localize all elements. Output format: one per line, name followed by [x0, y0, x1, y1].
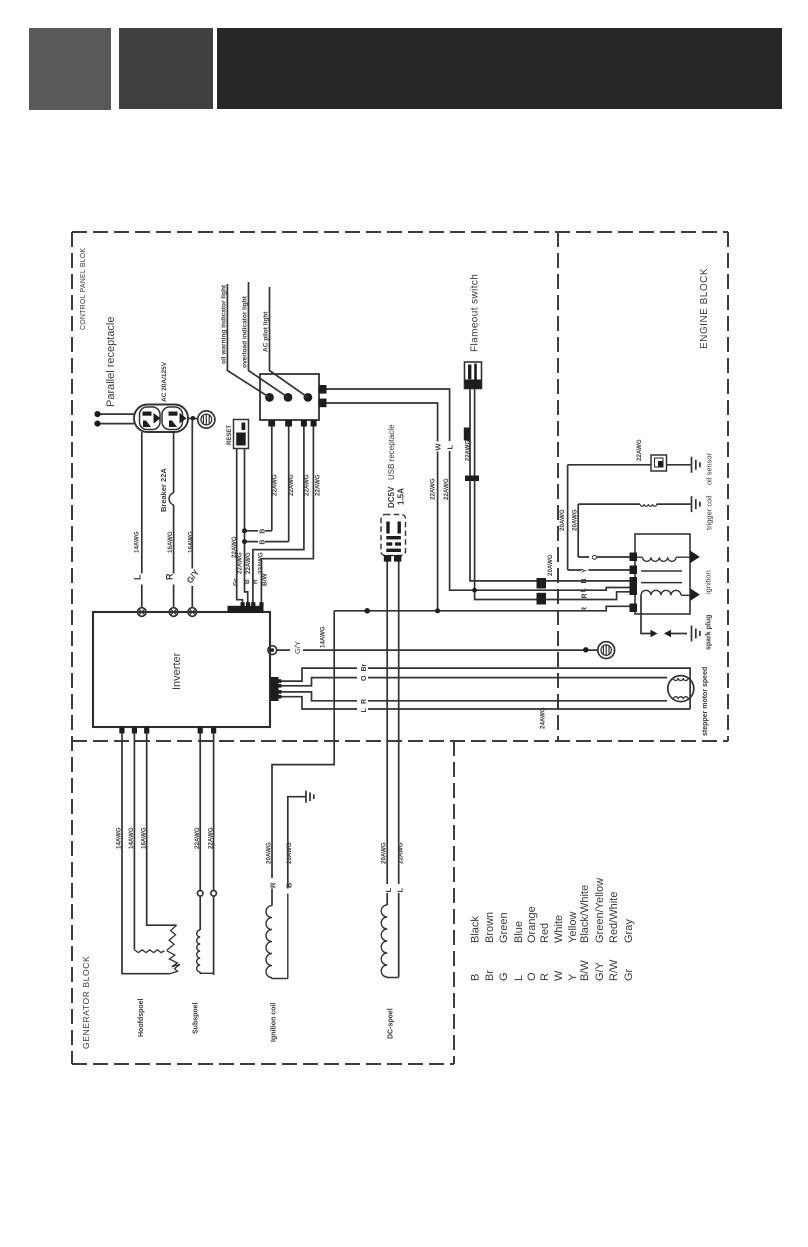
svg-text:Gr: Gr	[233, 578, 240, 586]
svg-text:Blue: Blue	[513, 921, 525, 943]
label 20AWG ign2	[286, 842, 293, 864]
control panel block border	[72, 232, 728, 1064]
ground (spark plug)	[692, 626, 700, 642]
engine connector bar 1	[537, 578, 547, 589]
label 20AWG near connectors	[547, 554, 554, 576]
parallel receptacle pins	[143, 412, 187, 428]
wire AC drop 2 (B)	[245, 427, 289, 542]
svg-text:DC5V: DC5V	[387, 486, 396, 508]
svg-text:14AWG: 14AWG	[116, 827, 123, 849]
legend abbreviations	[470, 959, 636, 981]
svg-text:Black: Black	[470, 916, 482, 943]
svg-text:20AWG: 20AWG	[286, 842, 293, 864]
label 22AWG col3	[258, 552, 265, 574]
wire oil warning indicator light	[227, 284, 269, 397]
AC block right terminal W	[319, 385, 327, 394]
wire spark plug	[641, 595, 687, 633]
engine frame ground circle	[598, 642, 615, 659]
label 20AWG riser Y	[559, 509, 566, 531]
svg-text:ignition: ignition	[704, 570, 713, 594]
label Hoofdspoel	[138, 998, 145, 1037]
ignition secondary coil	[641, 590, 690, 595]
svg-text:GENERATOR BLOCK: GENERATOR BLOCK	[81, 956, 91, 1049]
svg-text:20AWG: 20AWG	[559, 509, 566, 531]
svg-text:L: L	[445, 445, 454, 450]
label R stepper	[361, 699, 368, 704]
label L wire	[580, 587, 587, 592]
svg-text:AC pilot light: AC pilot light	[263, 311, 270, 352]
svg-text:24AWG: 24AWG	[540, 707, 547, 729]
svg-text:B: B	[581, 578, 588, 583]
label W	[434, 443, 443, 451]
node W riser join	[472, 588, 477, 593]
label L	[133, 574, 143, 580]
wire ignition coil B to ground	[288, 797, 306, 889]
svg-text:22AWG: 22AWG	[315, 474, 322, 496]
svg-text:Hoofdspoel: Hoofdspoel	[138, 998, 145, 1037]
svg-text:14AWG: 14AWG	[128, 827, 135, 849]
svg-text:AC 20A/125V: AC 20A/125V	[161, 361, 168, 402]
svg-text:14AWG: 14AWG	[134, 531, 141, 553]
svg-text:22AWG: 22AWG	[398, 842, 405, 864]
wire main coil 1	[122, 733, 170, 974]
header bar 3	[217, 28, 782, 109]
ignition HT arrow top	[690, 551, 700, 564]
inverter G/Y terminal right	[268, 646, 277, 655]
svg-text:22AWG: 22AWG	[443, 478, 450, 500]
wire stepper B (O)	[281, 678, 667, 686]
label 24AWG	[540, 707, 547, 729]
svg-text:22AWG: 22AWG	[288, 474, 295, 496]
svg-text:Red/White: Red/White	[608, 892, 620, 943]
wire USB right down to DC coil	[398, 562, 400, 978]
wire receptacle to ground circle	[188, 418, 198, 420]
oil sensor	[651, 455, 667, 471]
svg-text:14AWG: 14AWG	[320, 626, 327, 648]
legend color names	[470, 878, 636, 943]
svg-text:spark plug: spark plug	[706, 615, 713, 650]
svg-text:1.5A: 1.5A	[397, 488, 406, 505]
inverter U1	[93, 612, 270, 727]
svg-text:O: O	[592, 554, 599, 560]
DC coil winding	[381, 905, 398, 978]
header bar 1	[29, 28, 111, 110]
breaker symbol	[169, 493, 174, 505]
label 22AWG oil sensor	[636, 439, 643, 461]
label B wire	[581, 578, 588, 583]
label R wire b	[581, 607, 588, 612]
label 22AWG sub1	[194, 827, 201, 849]
header bar 2	[119, 28, 213, 109]
svg-text:R: R	[539, 973, 551, 981]
svg-text:stepper motor speed: stepper motor speed	[702, 667, 709, 736]
svg-text:Yellow: Yellow	[567, 912, 579, 943]
ground (ignition B)	[306, 791, 314, 803]
svg-text:22AWG: 22AWG	[272, 474, 279, 496]
label USB receptacle	[387, 424, 396, 480]
ignition module U2	[635, 534, 690, 614]
label DC-spoel	[388, 1008, 395, 1039]
svg-text:L: L	[580, 587, 587, 592]
label oil sensor	[705, 452, 714, 485]
parallel receptacle body	[134, 405, 188, 433]
svg-text:22AWG: 22AWG	[258, 552, 265, 574]
svg-text:B/W: B/W	[579, 960, 591, 981]
wire stepper C (R)	[281, 692, 667, 701]
svg-text:R: R	[252, 579, 259, 584]
svg-text:22AWG: 22AWG	[237, 552, 244, 574]
label ENGINE BLOCK	[699, 268, 710, 349]
svg-text:USB receptacle: USB receptacle	[387, 424, 396, 480]
ground (oil sensor)	[692, 457, 700, 473]
label G/Y bus	[293, 641, 302, 654]
svg-text:W: W	[553, 970, 565, 981]
svg-text:Inverter: Inverter	[171, 652, 183, 690]
wire R down to inverter (with breaker gap)	[173, 432, 175, 608]
label spark plug	[706, 615, 713, 650]
main winding zigzag	[134, 925, 180, 974]
wire main coil 2	[133, 733, 135, 950]
wire sub coil left	[199, 733, 201, 930]
label overload indicator light	[242, 295, 249, 368]
label 20AWG riser O	[572, 509, 579, 531]
svg-text:Green/Yellow: Green/Yellow	[594, 878, 606, 943]
ground circle (panel earth)	[198, 411, 215, 428]
wire riser Y to oil sensor	[568, 465, 630, 570]
svg-text:Gr: Gr	[623, 968, 635, 981]
wire USB left down to DC coil	[386, 562, 388, 906]
label Ignition coil	[271, 1003, 278, 1042]
wire stepper A (Br)	[281, 668, 690, 709]
svg-text:Subspoel: Subspoel	[193, 1002, 200, 1034]
svg-text:ENGINE BLOCK: ENGINE BLOCK	[699, 268, 710, 349]
stepper motor M1	[668, 676, 694, 702]
flameout wire connector	[465, 476, 479, 482]
ignition exciter coil winding	[266, 894, 288, 979]
label Gr	[233, 578, 240, 586]
label RESET	[227, 425, 233, 445]
label CONTROL PANEL BLOK	[80, 248, 87, 330]
node left terminal A	[94, 411, 100, 417]
svg-text:O: O	[526, 972, 538, 981]
svg-text:G/Y: G/Y	[594, 961, 606, 981]
wire flameout 2 (R)	[475, 389, 630, 600]
label Subspoel	[193, 1002, 200, 1034]
svg-text:R: R	[581, 593, 588, 598]
svg-text:Br: Br	[484, 970, 496, 981]
svg-text:L: L	[133, 574, 143, 580]
AC block lamp node 3	[304, 393, 313, 402]
label 22AWG W riser	[430, 478, 437, 500]
inverter top connector strip	[228, 602, 264, 613]
svg-text:W: W	[434, 443, 443, 451]
label L dc2	[395, 888, 404, 893]
ground (trigger coil)	[692, 496, 700, 512]
svg-text:L: L	[395, 888, 404, 893]
engine block border	[557, 232, 559, 741]
ignition module terminals	[630, 553, 638, 613]
ignition core lines	[641, 571, 682, 583]
svg-text:L: L	[361, 708, 368, 713]
USB receptacle outline	[381, 515, 406, 556]
wire AC drop 3	[253, 427, 304, 607]
svg-text:Red: Red	[539, 923, 551, 943]
inverter terminal R	[169, 608, 178, 617]
svg-text:Br: Br	[361, 663, 368, 671]
label R wire4	[252, 579, 259, 584]
wire ignition coil link	[272, 611, 334, 906]
inverter terminal L	[138, 608, 147, 617]
label oil warning indicator light	[221, 284, 228, 364]
label B gap2	[260, 540, 267, 545]
label 22AWG sub2	[208, 827, 215, 849]
svg-text:R/W: R/W	[608, 959, 620, 981]
wire reset 2 down	[245, 449, 248, 607]
svg-text:B: B	[284, 882, 293, 888]
wire AC drop 1 (B)	[245, 427, 272, 531]
wire L down to inverter	[141, 432, 143, 608]
label AC 20A/125V	[161, 361, 168, 402]
wire R2 bus (ignition R)	[334, 606, 629, 611]
svg-text:Parallel receptacle: Parallel receptacle	[105, 317, 117, 408]
label G/Y slanted	[184, 567, 201, 585]
AC block right terminal L	[319, 399, 327, 408]
svg-text:O: O	[361, 675, 368, 681]
svg-text:B: B	[260, 529, 267, 534]
svg-text:trigger coil: trigger coil	[705, 495, 714, 530]
wire riser O to trigger coil	[578, 504, 629, 557]
spark plug gap arrows	[651, 630, 672, 637]
node left terminal B	[94, 421, 100, 427]
svg-text:L: L	[384, 888, 393, 893]
label B/W wire5	[262, 573, 269, 587]
wire W from AC block	[327, 389, 630, 590]
trigger coil L1	[640, 504, 657, 506]
svg-text:CONTROL PANEL BLOK: CONTROL PANEL BLOK	[80, 248, 87, 330]
ignition HT arrow bottom	[690, 588, 700, 601]
wire stepper D (L)	[281, 697, 690, 709]
label 14AWG (R wire)	[167, 531, 174, 553]
svg-text:B: B	[260, 540, 267, 545]
label B ign	[284, 882, 293, 888]
svg-text:oil sensor: oil sensor	[705, 452, 714, 485]
wire L from AC block	[327, 403, 438, 611]
wire reset 1 down	[237, 449, 243, 607]
generator block border	[72, 741, 454, 1064]
wire G/Y to engine ground	[277, 649, 598, 651]
svg-text:RESET: RESET	[227, 425, 233, 445]
svg-text:20AWG: 20AWG	[572, 509, 579, 531]
AC block lamp node 1	[265, 393, 274, 402]
svg-text:20AWG: 20AWG	[266, 842, 273, 864]
label 22AWG flameout	[464, 428, 472, 462]
label 14AWG (L wire)	[134, 531, 141, 553]
flameout switch S1	[465, 362, 482, 389]
wire overload indicator light	[249, 282, 289, 397]
node B join 2	[242, 539, 247, 544]
svg-text:DC-spoel: DC-spoel	[388, 1008, 395, 1039]
label O wire	[592, 554, 599, 560]
label AC pilot light	[263, 311, 270, 352]
wire flameout 1 (B)	[470, 389, 630, 581]
label 16AWG main3	[141, 827, 148, 849]
engine connector bar 2	[537, 593, 547, 605]
wire G/Y down to inverter	[191, 419, 193, 608]
node G/Y small terminal	[583, 647, 588, 652]
svg-text:B: B	[470, 974, 482, 981]
label Br	[361, 663, 368, 671]
label 22AWG drop1	[272, 474, 279, 496]
label B gap1	[260, 529, 267, 534]
USB connector pins	[384, 522, 402, 562]
svg-text:20AWG: 20AWG	[547, 554, 554, 576]
svg-text:22AWG: 22AWG	[304, 474, 311, 496]
svg-text:overload indicator light: overload indicator light	[242, 295, 249, 368]
svg-text:G/Y: G/Y	[293, 641, 302, 654]
AC block bottom terminals	[268, 420, 316, 427]
label 20AWG ign1	[266, 842, 273, 864]
node G/Y branch	[191, 416, 196, 421]
label GENERATOR BLOCK	[81, 956, 91, 1049]
label 22AWG dc2	[398, 842, 405, 864]
inverter bottom terminals	[119, 727, 216, 734]
label R ign	[269, 882, 278, 888]
label 1.5A	[397, 488, 406, 505]
wire trigger coil	[578, 503, 690, 505]
svg-text:20AWG: 20AWG	[381, 842, 388, 864]
inverter right connector	[271, 677, 282, 701]
svg-text:L: L	[513, 975, 525, 981]
label 14AWG G/Y bus	[320, 626, 327, 648]
svg-text:22AWG: 22AWG	[466, 440, 472, 461]
AC receptacle block	[260, 374, 319, 420]
label O	[361, 675, 368, 681]
label 22AWG col1	[237, 552, 244, 574]
svg-text:16AWG: 16AWG	[167, 531, 174, 553]
svg-text:22AWG: 22AWG	[636, 439, 643, 461]
svg-text:R: R	[361, 699, 368, 704]
node W riser on R2	[435, 608, 440, 613]
svg-text:22AWG: 22AWG	[430, 478, 437, 500]
svg-text:Gray: Gray	[623, 919, 635, 943]
wire AC drop 4	[261, 427, 313, 607]
sub coil connector circles	[197, 891, 216, 897]
label Breaker 22A	[159, 468, 168, 512]
label 14AWG main1	[116, 827, 123, 849]
label L riser	[445, 445, 454, 450]
svg-text:Brown: Brown	[484, 912, 496, 943]
svg-text:R: R	[165, 573, 175, 580]
svg-text:White: White	[553, 915, 565, 943]
label 14AWG main2	[128, 827, 135, 849]
wire AC pilot light	[270, 287, 308, 397]
label DC5V	[387, 486, 396, 508]
svg-text:oil warning indicator light: oil warning indicator light	[221, 284, 228, 364]
svg-text:Breaker 22A: Breaker 22A	[159, 468, 168, 512]
svg-text:Flameout switch: Flameout switch	[470, 274, 481, 352]
label Inverter	[171, 652, 183, 690]
svg-text:Black/White: Black/White	[579, 885, 591, 943]
label 20AWG dc1	[381, 842, 388, 864]
label 22AWG drop4	[315, 474, 322, 496]
label L stepper	[361, 708, 368, 713]
label 22AWG col2	[245, 552, 252, 574]
svg-text:B/W: B/W	[262, 573, 269, 587]
label B wire3	[244, 579, 251, 584]
label 22AWG drop2	[288, 474, 295, 496]
svg-text:R: R	[269, 882, 278, 888]
svg-text:G: G	[498, 972, 510, 981]
svg-text:Ignition coil: Ignition coil	[271, 1003, 278, 1042]
AC block lamp node 2	[284, 393, 293, 402]
node B join 1	[242, 528, 247, 533]
svg-text:B: B	[244, 579, 251, 584]
node dot on R2	[364, 608, 370, 614]
svg-text:Y: Y	[567, 973, 579, 981]
label Flameout switch	[470, 274, 481, 352]
label Y wire	[581, 568, 588, 573]
label Parallel receptacle	[105, 317, 117, 408]
label R	[165, 573, 175, 580]
sub coil winding	[197, 930, 214, 973]
label R wire a	[581, 593, 588, 598]
label 22AWG reset wire	[231, 536, 238, 558]
svg-text:16AWG: 16AWG	[141, 827, 148, 849]
label trigger coil	[705, 495, 714, 530]
label 22AWG L riser	[443, 478, 450, 500]
svg-text:G/Y: G/Y	[184, 567, 201, 585]
wire main coil 3	[147, 733, 177, 925]
inverter terminal G/Y top	[188, 608, 197, 617]
label stepper motor speed	[702, 667, 709, 736]
label L dc1	[384, 888, 393, 893]
label 22AWG drop3	[304, 474, 311, 496]
reset button	[234, 420, 249, 449]
svg-text:Orange: Orange	[526, 906, 538, 943]
svg-text:22AWG: 22AWG	[194, 827, 201, 849]
svg-text:R: R	[581, 607, 588, 612]
label ignition	[704, 570, 713, 594]
wire sub coil right	[213, 733, 215, 975]
svg-text:Green: Green	[498, 912, 510, 943]
svg-text:16AWG: 16AWG	[188, 531, 195, 553]
svg-text:22AWG: 22AWG	[245, 552, 252, 574]
ignition primary coil	[637, 557, 690, 561]
svg-text:22AWG: 22AWG	[208, 827, 215, 849]
label 16AWG (G/Y wire)	[188, 531, 195, 553]
svg-text:Y: Y	[581, 568, 588, 573]
wire oil sensor	[568, 464, 691, 466]
wire receptacle left pair	[99, 414, 134, 424]
